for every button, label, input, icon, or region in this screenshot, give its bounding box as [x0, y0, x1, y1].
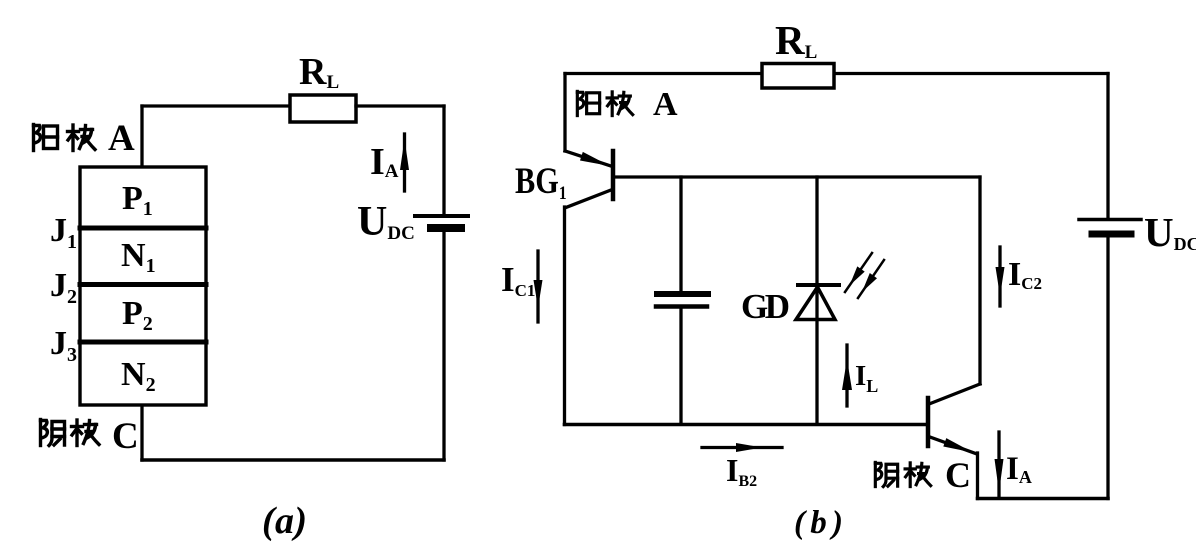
svg-text:A: A: [108, 118, 135, 159]
svg-text:GD: GD: [741, 287, 790, 326]
svg-text:(a): (a): [262, 500, 307, 542]
svg-text:(b): (b): [794, 505, 843, 541]
svg-text:C: C: [945, 455, 971, 495]
svg-text:A: A: [653, 86, 678, 123]
svg-text:C: C: [112, 416, 139, 457]
